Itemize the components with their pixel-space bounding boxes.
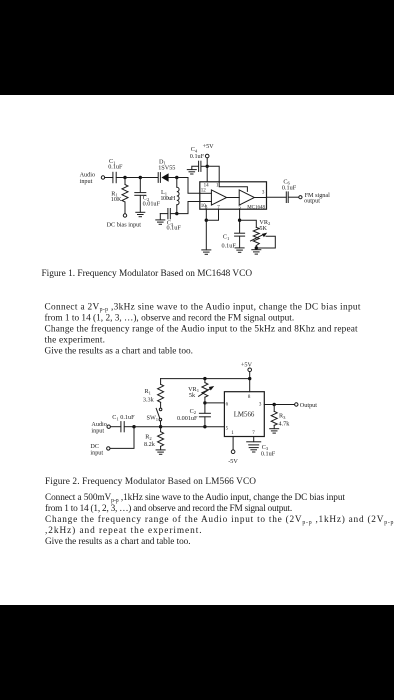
svg-text:Change the frequency range of: Change the frequency range of the Audio …	[45, 323, 359, 334]
op-amp U1 buffer B (inside MC1648)	[239, 190, 254, 205]
op-amp U1 MC1648 package outline	[200, 182, 267, 209]
svg-text:8: 8	[205, 206, 208, 211]
wire: node A to node B	[125, 177, 140, 179]
svg-text:Give the results as a chart an: Give the results as a chart and table to…	[45, 537, 191, 547]
svg-text:C1 0.1uF: C1 0.1uF	[112, 414, 135, 421]
wire: node B to D1	[140, 177, 158, 179]
wire: node K to node L	[161, 426, 205, 428]
capacitor C4 0.1uF (supply bypass)	[199, 161, 201, 171]
svg-text:0.001uF: 0.001uF	[177, 415, 198, 422]
svg-text:1SV55: 1SV55	[158, 165, 175, 172]
resistor R1 3.3k (fig2)	[158, 379, 164, 408]
wire: DC input to node J	[110, 427, 134, 449]
ground (R3, fig2)	[270, 429, 279, 433]
svg-text:Give the results as a chart an: Give the results as a chart and table to…	[45, 346, 193, 356]
svg-text:7: 7	[217, 206, 220, 211]
svg-text:4.7k: 4.7k	[279, 421, 291, 428]
wire: C1 to node J	[124, 426, 134, 428]
capacitor C2 0.001uF (fig2)	[199, 403, 210, 427]
node C (L1 top junction)	[175, 176, 178, 179]
terminal: FM signal output	[299, 196, 302, 199]
node L (C2 bottom junction)	[203, 425, 206, 428]
terminal: +5V supply (fig1)	[205, 154, 209, 158]
svg-text:0.1uF: 0.1uF	[190, 153, 205, 160]
ground (C5, fig1)	[235, 248, 244, 252]
wire: C4 to ground	[192, 166, 199, 169]
node G (pin 5 junction)	[238, 219, 241, 222]
svg-text:+5V: +5V	[241, 361, 253, 368]
capacitor C1 0.1uF (fig1 input)	[113, 172, 116, 182]
svg-text:Connect a 2Vp-p ,3kHz sine wav: Connect a 2Vp-p ,3kHz sine wave to the A…	[45, 302, 361, 313]
wire: buffer A to buffer B	[227, 197, 240, 199]
svg-text:MC1648: MC1648	[247, 205, 265, 210]
node A (R1 top junction)	[123, 176, 126, 179]
node M (VR1 top)	[203, 377, 206, 380]
wire: node J to node K	[134, 426, 161, 428]
svg-text:+5V: +5V	[203, 143, 215, 150]
svg-text:0.1uF: 0.1uF	[108, 163, 123, 170]
svg-text:C2: C2	[190, 408, 197, 415]
wire: node E to C4	[201, 165, 207, 167]
varactor diode D1 1SV55	[158, 173, 168, 183]
svg-text:DC bias input: DC bias input	[107, 221, 142, 228]
svg-text:Connect a 500mVp-p ,1kHz sine: Connect a 500mVp-p ,1kHz sine wave to th…	[45, 493, 345, 504]
svg-text:6: 6	[226, 402, 229, 407]
terminal: -5V supply (fig2)	[231, 450, 235, 454]
svg-text:C1: C1	[223, 234, 230, 241]
svg-text:input: input	[91, 428, 104, 435]
wire: audio input to C1	[105, 177, 113, 179]
svg-text:5: 5	[239, 206, 242, 211]
node E (+5V junction)	[206, 165, 209, 168]
wire: node E to pin 1	[207, 166, 219, 182]
node D (L1 bottom junction)	[175, 212, 178, 215]
resistor R2 8.2k	[158, 427, 164, 450]
wire: pin 8 to ground	[205, 209, 207, 250]
capacitor C3 0.1uF (fig2)	[247, 442, 261, 445]
terminal: Audio input (fig2)	[107, 425, 110, 428]
terminal: DC input (fig2)	[107, 447, 110, 450]
svg-text:the experiment.: the experiment.	[45, 335, 106, 345]
svg-text:LM566: LM566	[234, 412, 255, 419]
svg-text:input: input	[80, 178, 93, 185]
capacitor C3 0.1uF (fig1)	[168, 209, 170, 219]
wire: pin 3 to output terminal	[264, 404, 294, 406]
wire: pin 5 down	[239, 209, 241, 233]
switch SW1	[156, 408, 162, 427]
wire: pin 3 to C6	[267, 196, 287, 198]
wire: node L to pin 5	[205, 426, 225, 428]
wire: D1 to node C	[169, 177, 177, 179]
node N (VR1 bottom / pin6)	[203, 401, 206, 404]
wire: node G to VR2	[240, 220, 257, 227]
svg-text:14: 14	[204, 183, 210, 188]
svg-text:output: output	[304, 198, 320, 205]
wire: internal feedback from pin 1	[219, 182, 247, 192]
svg-text:100uH: 100uH	[160, 195, 176, 202]
wire: VR2 wiper to bottom	[256, 236, 275, 248]
wire: C3 to ground	[160, 214, 168, 220]
svg-text:5k: 5k	[189, 392, 196, 399]
node J (DC input junction)	[132, 425, 135, 428]
ground (C3, fig1)	[156, 220, 165, 224]
wire: C1 to node A	[116, 177, 125, 179]
svg-text:Change the frequency range of: Change the frequency range of the Audio …	[45, 514, 394, 526]
capacitor C2 0.01uF (shunt)	[135, 178, 146, 213]
wire: node D to pin 10	[177, 202, 200, 214]
terminal: +5V supply (fig2)	[248, 368, 252, 372]
svg-text:0.01uF: 0.01uF	[143, 201, 161, 208]
wire: audio input to C1 (fig2)	[111, 426, 121, 428]
node P (+5V rail junction)	[248, 377, 251, 380]
ground (C3, fig2)	[249, 448, 258, 452]
svg-text:R1: R1	[145, 388, 152, 395]
potentiometer VR2 5K	[251, 227, 268, 248]
terminal: Output (fig2)	[295, 403, 298, 406]
capacitor C6 0.1uF (output)	[286, 192, 288, 203]
ground (pin 8, fig1)	[202, 250, 211, 254]
ground (C4, fig1)	[187, 170, 196, 174]
svg-text:R2: R2	[145, 434, 152, 441]
wire: buffer B to pin 3	[254, 197, 266, 199]
resistor R1 10K	[122, 178, 128, 214]
svg-text:5: 5	[226, 426, 229, 431]
svg-text:SW1: SW1	[147, 415, 159, 422]
svg-text:R3: R3	[279, 413, 286, 420]
svg-text:3: 3	[259, 403, 262, 408]
svg-text:1: 1	[216, 183, 219, 188]
svg-text:Figure 1. Frequency Modulator: Figure 1. Frequency Modulator Based on M…	[42, 269, 253, 279]
svg-text:from 1 to 14 (1, 2, 3, …) and: from 1 to 14 (1, 2, 3, …) and observe an…	[45, 503, 292, 514]
svg-text:3.3k: 3.3k	[143, 396, 155, 403]
svg-text:input: input	[90, 449, 103, 456]
wire: node N to pin 6	[205, 402, 225, 404]
svg-text:5K: 5K	[259, 225, 267, 232]
svg-text:7: 7	[252, 431, 255, 436]
capacitor C5 0.1uF (pin 5 bypass)	[235, 233, 245, 248]
svg-text:0.1uF: 0.1uF	[222, 242, 237, 249]
svg-text:-5V: -5V	[228, 458, 238, 465]
wire: pin 1 to -5V	[232, 437, 234, 450]
terminal: Audio input (fig1)	[101, 176, 104, 179]
node H (VR2 bottom)	[255, 246, 258, 249]
ground (VR2, fig1)	[252, 250, 261, 254]
wire: top rail +5V	[161, 378, 250, 380]
ground (C2, fig1)	[136, 212, 145, 216]
op-amp U2 LM566 package outline	[224, 392, 264, 437]
svg-text:0.1uF: 0.1uF	[167, 225, 182, 232]
wire: node D to C3	[170, 213, 176, 215]
svg-text:Output: Output	[300, 402, 317, 409]
capacitor C1 0.1uF (fig2)	[121, 422, 124, 432]
node F (pin7/pin8 junction)	[205, 219, 208, 222]
potentiometer VR1 5k	[199, 379, 215, 403]
wire: +5V to pin 8	[249, 372, 251, 392]
svg-text:Figure 2. Frequency Modulator: Figure 2. Frequency Modulator Based on L…	[45, 477, 256, 487]
wire: +5V to pin 14	[206, 158, 208, 182]
wire: pin 7 to node F	[206, 209, 218, 220]
svg-text:10K: 10K	[111, 196, 122, 203]
node Q (R3 top)	[273, 403, 276, 406]
op-amp U1 buffer A (inside MC1648)	[211, 190, 226, 205]
svg-text:0.1uF: 0.1uF	[282, 184, 297, 191]
svg-text:8: 8	[248, 395, 251, 400]
svg-text:3: 3	[262, 191, 265, 196]
resistor R3 4.7k	[271, 405, 277, 429]
node K (R2/SW1 junction)	[159, 425, 162, 428]
wire: pin 12 stub to buffer A	[200, 192, 212, 194]
svg-text:from 1 to 14 (1, 2, 3, …), obs: from 1 to 14 (1, 2, 3, …), observe and r…	[45, 312, 295, 323]
svg-text:0.1uF: 0.1uF	[261, 450, 276, 457]
wire: pin 7 to C3 (fig2)	[253, 437, 255, 442]
node B (C2 top junction)	[139, 176, 142, 179]
wire: node C to pin 12	[177, 178, 200, 194]
svg-text:12: 12	[201, 189, 207, 194]
ground (R2, fig2)	[156, 450, 165, 454]
svg-text:1: 1	[231, 431, 234, 436]
svg-text:,2kHz) and repeat the experime: ,2kHz) and repeat the experiment.	[45, 525, 203, 536]
terminal: DC bias input (fig1)	[123, 214, 126, 217]
wire: pin 10 stub to buffer A	[200, 201, 212, 203]
svg-text:8.2k: 8.2k	[144, 441, 156, 448]
inductor L1 100uH	[177, 178, 179, 214]
wire: C6 to FM output terminal	[288, 196, 298, 198]
